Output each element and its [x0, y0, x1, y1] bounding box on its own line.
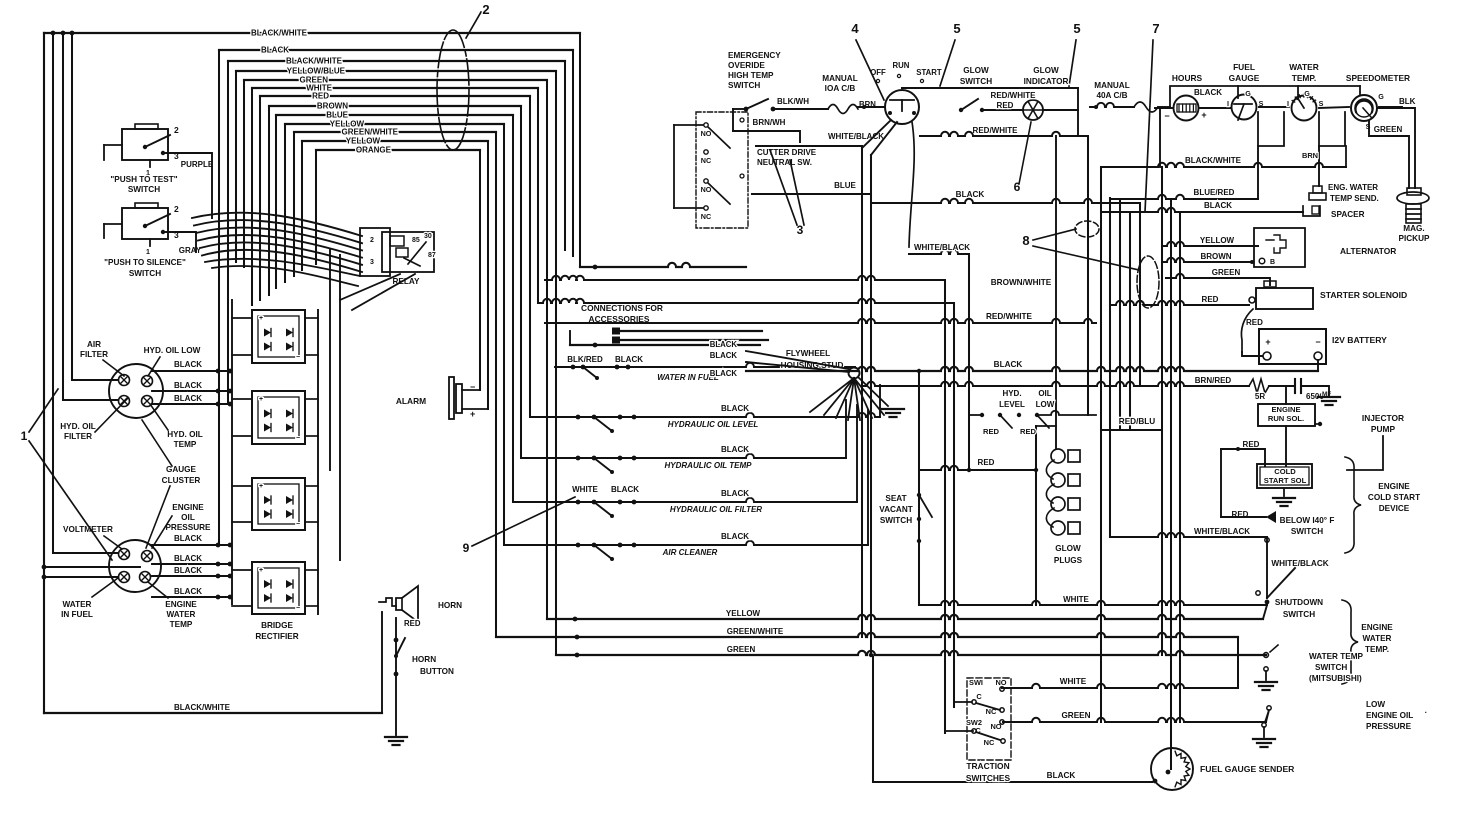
svg-text:+: +: [470, 409, 475, 419]
svg-text:HYDRAULIC OIL TEMP: HYDRAULIC OIL TEMP: [665, 461, 753, 470]
svg-text:SPEEDOMETER: SPEEDOMETER: [1346, 73, 1410, 83]
svg-text:BLACK: BLACK: [721, 445, 749, 454]
svg-text:BLACK: BLACK: [1204, 201, 1232, 210]
svg-text:BLACK/WHITE: BLACK/WHITE: [286, 57, 343, 66]
svg-text:ENG. WATER: ENG. WATER: [1328, 183, 1378, 192]
svg-text:STARTER SOLENOID: STARTER SOLENOID: [1320, 290, 1407, 300]
svg-text:−: −: [296, 605, 300, 612]
svg-text:−: −: [1164, 111, 1169, 121]
svg-text:TRACTION: TRACTION: [966, 761, 1009, 771]
svg-text:TEMP.: TEMP.: [1365, 645, 1389, 654]
svg-text:RED: RED: [1020, 427, 1037, 436]
svg-text:BROWN: BROWN: [1200, 252, 1231, 261]
svg-text:LOW: LOW: [1366, 700, 1385, 709]
svg-text:WATER: WATER: [1363, 634, 1392, 643]
svg-text:+: +: [1201, 110, 1206, 120]
svg-text:2: 2: [482, 2, 489, 17]
svg-text:−: −: [296, 435, 300, 442]
svg-text:WHITE: WHITE: [1060, 677, 1087, 686]
svg-text:BLUE: BLUE: [326, 111, 348, 120]
svg-text:RED: RED: [312, 92, 329, 101]
svg-text:G: G: [1378, 92, 1384, 101]
svg-text:BLACK: BLACK: [710, 351, 738, 360]
svg-text:RED/BLU: RED/BLU: [1119, 417, 1155, 426]
svg-text:OIL: OIL: [181, 513, 195, 522]
svg-text:HORN: HORN: [412, 655, 436, 664]
svg-text:WHITE/BLACK: WHITE/BLACK: [914, 243, 970, 252]
svg-text:87: 87: [428, 252, 436, 259]
svg-text:3: 3: [370, 259, 374, 266]
svg-text:(MITSUBISHI): (MITSUBISHI): [1309, 674, 1362, 683]
svg-text:WHITE/BLACK: WHITE/BLACK: [1271, 559, 1328, 568]
svg-text:RUN: RUN: [893, 61, 910, 70]
svg-text:I2V BATTERY: I2V BATTERY: [1332, 335, 1387, 345]
svg-text:ENGINE: ENGINE: [1271, 405, 1300, 414]
svg-text:−: −: [1315, 337, 1320, 347]
svg-text:ALTERNATOR: ALTERNATOR: [1340, 246, 1396, 256]
svg-text:NC: NC: [984, 738, 995, 747]
svg-text:−: −: [296, 354, 300, 361]
svg-text:GREEN/WHITE: GREEN/WHITE: [727, 627, 784, 636]
svg-text:BRN/WH: BRN/WH: [753, 118, 786, 127]
svg-text:MAG.: MAG.: [1403, 224, 1424, 233]
svg-text:1: 1: [146, 249, 150, 256]
svg-text:TEMP SEND.: TEMP SEND.: [1330, 194, 1379, 203]
svg-text:SWITCH: SWITCH: [880, 516, 912, 525]
svg-text:IOA C/B: IOA C/B: [825, 84, 856, 93]
svg-text:G: G: [1245, 89, 1251, 98]
svg-text:NO: NO: [995, 678, 1006, 687]
svg-text:9: 9: [463, 541, 470, 555]
svg-text:MANUAL: MANUAL: [822, 74, 857, 83]
svg-text:BLACK: BLACK: [611, 485, 639, 494]
svg-text:LOW: LOW: [1036, 400, 1055, 409]
svg-text:FUEL: FUEL: [1233, 62, 1255, 72]
svg-text:TEMP: TEMP: [174, 440, 197, 449]
svg-text:BELOW I40° F: BELOW I40° F: [1280, 516, 1335, 525]
svg-text:B: B: [1270, 259, 1275, 266]
svg-text:5: 5: [953, 21, 960, 36]
svg-text:COLD START: COLD START: [1368, 493, 1420, 502]
svg-text:RED/WHITE: RED/WHITE: [991, 91, 1037, 100]
svg-text:BRN/RED: BRN/RED: [1195, 376, 1232, 385]
svg-text:HOURS: HOURS: [1172, 73, 1203, 83]
svg-text:EMERGENCY: EMERGENCY: [728, 51, 781, 60]
svg-text:BLACK: BLACK: [174, 566, 202, 575]
svg-text:BLACK: BLACK: [721, 532, 749, 541]
svg-text:85: 85: [412, 237, 420, 244]
svg-text:BLACK: BLACK: [1194, 88, 1222, 97]
svg-text:BLACK: BLACK: [174, 534, 202, 543]
svg-text:NO: NO: [701, 185, 712, 194]
svg-text:HYD.: HYD.: [1002, 389, 1021, 398]
svg-text:5: 5: [1073, 21, 1080, 36]
svg-text:GREEN: GREEN: [1061, 711, 1090, 720]
svg-text:I: I: [1227, 99, 1229, 108]
svg-text:GAUGE: GAUGE: [1229, 73, 1260, 83]
svg-text:WHITE: WHITE: [1063, 595, 1089, 604]
svg-text:START: START: [916, 68, 942, 77]
svg-text:4: 4: [851, 21, 859, 36]
svg-text:HYD. OIL: HYD. OIL: [167, 430, 202, 439]
svg-text:TEMP: TEMP: [170, 620, 193, 629]
svg-text:SWITCH: SWITCH: [128, 185, 160, 194]
svg-text:BLACK: BLACK: [710, 369, 738, 378]
svg-text:VACANT: VACANT: [879, 505, 913, 514]
svg-text:FILTER: FILTER: [80, 350, 108, 359]
svg-text:BLACK: BLACK: [174, 554, 202, 563]
svg-text:ORANGE: ORANGE: [356, 146, 392, 155]
svg-text:BLK/WH: BLK/WH: [777, 97, 809, 106]
svg-text:WATER: WATER: [1289, 62, 1319, 72]
svg-text:BRIDGE: BRIDGE: [261, 621, 293, 630]
svg-text:ENGINE: ENGINE: [165, 600, 197, 609]
svg-text:SWITCH: SWITCH: [960, 77, 992, 86]
svg-text:AIR: AIR: [87, 340, 101, 349]
svg-text:YELLOW/BLUE: YELLOW/BLUE: [287, 67, 346, 76]
svg-text:S: S: [1319, 99, 1324, 108]
svg-text:BROWN: BROWN: [317, 102, 348, 111]
svg-text:RECTIFIER: RECTIFIER: [255, 632, 298, 641]
svg-text:SWITCH: SWITCH: [1283, 610, 1315, 619]
svg-text:RED: RED: [997, 101, 1014, 110]
svg-text:GREEN/WHITE: GREEN/WHITE: [342, 128, 399, 137]
svg-text:ALARM: ALARM: [396, 396, 426, 406]
svg-text:WATER: WATER: [63, 600, 92, 609]
svg-text:RED: RED: [1246, 318, 1263, 327]
svg-text:HYD. OIL LOW: HYD. OIL LOW: [144, 346, 201, 355]
svg-text:·: ·: [1425, 708, 1428, 717]
svg-text:HIGH TEMP: HIGH TEMP: [728, 71, 774, 80]
svg-text:COLD: COLD: [1274, 467, 1296, 476]
svg-text:BLACK/WHITE: BLACK/WHITE: [251, 29, 308, 38]
svg-text:HYDRAULIC OIL LEVEL: HYDRAULIC OIL LEVEL: [668, 420, 759, 429]
svg-text:C: C: [976, 692, 982, 701]
svg-text:RED/WHITE: RED/WHITE: [986, 312, 1032, 321]
svg-text:YELLOW: YELLOW: [1200, 236, 1235, 245]
svg-text:MANUAL: MANUAL: [1094, 81, 1129, 90]
svg-text:WHITE/BLACK: WHITE/BLACK: [1194, 527, 1250, 536]
svg-text:BLACK/WHITE: BLACK/WHITE: [1185, 156, 1242, 165]
svg-text:BLACK/WHITE: BLACK/WHITE: [174, 703, 231, 712]
svg-text:SPACER: SPACER: [1331, 210, 1365, 219]
svg-text:NO: NO: [701, 129, 712, 138]
svg-text:WATER: WATER: [167, 610, 196, 619]
svg-text:RED: RED: [404, 619, 421, 628]
svg-text:SWITCH: SWITCH: [728, 81, 760, 90]
svg-text:BLACK: BLACK: [174, 394, 202, 403]
svg-text:BROWN/WHITE: BROWN/WHITE: [991, 278, 1052, 287]
svg-text:ENGINE OIL: ENGINE OIL: [1366, 711, 1413, 720]
svg-text:40A C/B: 40A C/B: [1096, 91, 1127, 100]
svg-text:BLACK: BLACK: [994, 360, 1023, 369]
svg-text:SEAT: SEAT: [885, 494, 906, 503]
svg-text:HYDRAULIC OIL FILTER: HYDRAULIC OIL FILTER: [670, 505, 762, 514]
svg-text:NC: NC: [701, 212, 711, 221]
svg-text:+: +: [259, 396, 263, 403]
svg-text:CUTTER DRIVE: CUTTER DRIVE: [757, 148, 817, 157]
svg-text:SWI: SWI: [969, 678, 983, 687]
svg-text:PRESSURE: PRESSURE: [165, 523, 211, 532]
svg-text:+: +: [259, 567, 263, 574]
svg-text:HYD. OIL: HYD. OIL: [60, 422, 95, 431]
svg-text:FILTER: FILTER: [64, 432, 92, 441]
svg-text:WHITE: WHITE: [572, 485, 598, 494]
svg-text:BLK/RED: BLK/RED: [567, 355, 603, 364]
svg-text:+: +: [259, 315, 263, 322]
svg-text:PUMP: PUMP: [1371, 424, 1396, 434]
svg-text:GREEN: GREEN: [727, 645, 756, 654]
svg-text:CLUSTER: CLUSTER: [162, 476, 201, 485]
svg-text:LEVEL: LEVEL: [999, 400, 1025, 409]
svg-text:IN FUEL: IN FUEL: [61, 610, 93, 619]
svg-text:PRESSURE: PRESSURE: [1366, 722, 1412, 731]
svg-text:TEMP.: TEMP.: [1292, 73, 1317, 83]
svg-text:RED/WHITE: RED/WHITE: [973, 126, 1019, 135]
svg-text:2: 2: [174, 125, 179, 135]
svg-text:"PUSH TO TEST": "PUSH TO TEST": [110, 175, 177, 184]
svg-text:BUTTON: BUTTON: [420, 667, 454, 676]
svg-text:"PUSH TO SILENCE": "PUSH TO SILENCE": [104, 258, 186, 267]
svg-text:ENGINE: ENGINE: [172, 503, 204, 512]
svg-text:RUN SOL.: RUN SOL.: [1268, 414, 1304, 423]
svg-text:GRAY: GRAY: [179, 246, 202, 255]
svg-text:GLOW: GLOW: [1033, 66, 1059, 75]
svg-text:NC: NC: [701, 156, 711, 165]
svg-text:GREEN: GREEN: [1212, 268, 1241, 277]
svg-text:BRN: BRN: [1302, 151, 1318, 160]
svg-text:GAUGE: GAUGE: [166, 465, 197, 474]
svg-text:RED: RED: [983, 427, 1000, 436]
svg-text:ENGINE: ENGINE: [1361, 623, 1393, 632]
svg-text:AIR CLEANER: AIR CLEANER: [662, 548, 718, 557]
svg-text:GLOW: GLOW: [963, 66, 989, 75]
svg-text:BLACK: BLACK: [174, 381, 202, 390]
svg-text:+: +: [259, 483, 263, 490]
svg-text:BLACK: BLACK: [1047, 771, 1076, 780]
svg-text:G: G: [1304, 89, 1310, 98]
svg-text:BLACK: BLACK: [710, 340, 738, 349]
svg-text:SWITCH: SWITCH: [129, 269, 161, 278]
svg-text:30: 30: [424, 233, 432, 240]
svg-text:RED: RED: [1243, 440, 1260, 449]
svg-text:7: 7: [1152, 21, 1159, 36]
svg-text:OIL: OIL: [1038, 389, 1051, 398]
svg-text:+: +: [1265, 337, 1270, 347]
svg-text:INJECTOR: INJECTOR: [1362, 413, 1404, 423]
svg-text:BLK: BLK: [1399, 97, 1416, 106]
svg-text:GLOW: GLOW: [1055, 544, 1081, 553]
svg-text:PICKUP: PICKUP: [1399, 234, 1430, 243]
svg-text:FLYWHEEL: FLYWHEEL: [786, 349, 830, 358]
svg-text:OVERIDE: OVERIDE: [728, 61, 765, 70]
svg-text:BLACK: BLACK: [721, 404, 749, 413]
svg-text:SWITCH: SWITCH: [1291, 527, 1323, 536]
svg-text:HORN: HORN: [438, 601, 462, 610]
svg-text:BLUE/RED: BLUE/RED: [1194, 188, 1235, 197]
svg-text:YELLOW: YELLOW: [346, 137, 381, 146]
svg-text:BLUE: BLUE: [834, 181, 856, 190]
svg-text:−: −: [296, 521, 300, 528]
svg-text:SWITCH: SWITCH: [1315, 663, 1347, 672]
svg-text:DEVICE: DEVICE: [1379, 504, 1410, 513]
svg-text:BLACK: BLACK: [956, 190, 985, 199]
svg-text:WHITE/BLACK: WHITE/BLACK: [828, 132, 884, 141]
svg-text:START SOL: START SOL: [1264, 476, 1307, 485]
svg-text:SHUTDOWN: SHUTDOWN: [1275, 598, 1323, 607]
svg-text:BLACK: BLACK: [721, 489, 749, 498]
svg-text:PURPLE: PURPLE: [181, 160, 214, 169]
svg-text:2: 2: [370, 237, 374, 244]
svg-text:RED: RED: [1202, 295, 1219, 304]
svg-text:5R: 5R: [1255, 392, 1265, 401]
svg-text:1: 1: [21, 429, 28, 443]
svg-text:I: I: [1287, 99, 1289, 108]
svg-text:BLACK: BLACK: [261, 46, 289, 55]
svg-text:ENGINE: ENGINE: [1378, 482, 1410, 491]
svg-text:INDICATOR: INDICATOR: [1024, 77, 1069, 86]
svg-text:8: 8: [1022, 233, 1029, 248]
svg-text:BLACK: BLACK: [174, 360, 202, 369]
svg-text:CONNECTIONS FOR: CONNECTIONS FOR: [581, 303, 663, 313]
svg-text:NEUTRAL SW.: NEUTRAL SW.: [757, 158, 812, 167]
svg-text:SWITCHES: SWITCHES: [966, 773, 1011, 783]
svg-text:WATER TEMP: WATER TEMP: [1309, 652, 1364, 661]
svg-text:2: 2: [174, 204, 179, 214]
svg-text:RED: RED: [978, 458, 995, 467]
svg-text:BLACK: BLACK: [615, 355, 643, 364]
svg-text:FUEL GAUGE SENDER: FUEL GAUGE SENDER: [1200, 764, 1295, 774]
svg-text:YELLOW: YELLOW: [726, 609, 761, 618]
svg-text:BLACK: BLACK: [174, 587, 202, 596]
svg-text:GREEN: GREEN: [1374, 125, 1403, 134]
svg-text:PLUGS: PLUGS: [1054, 556, 1083, 565]
